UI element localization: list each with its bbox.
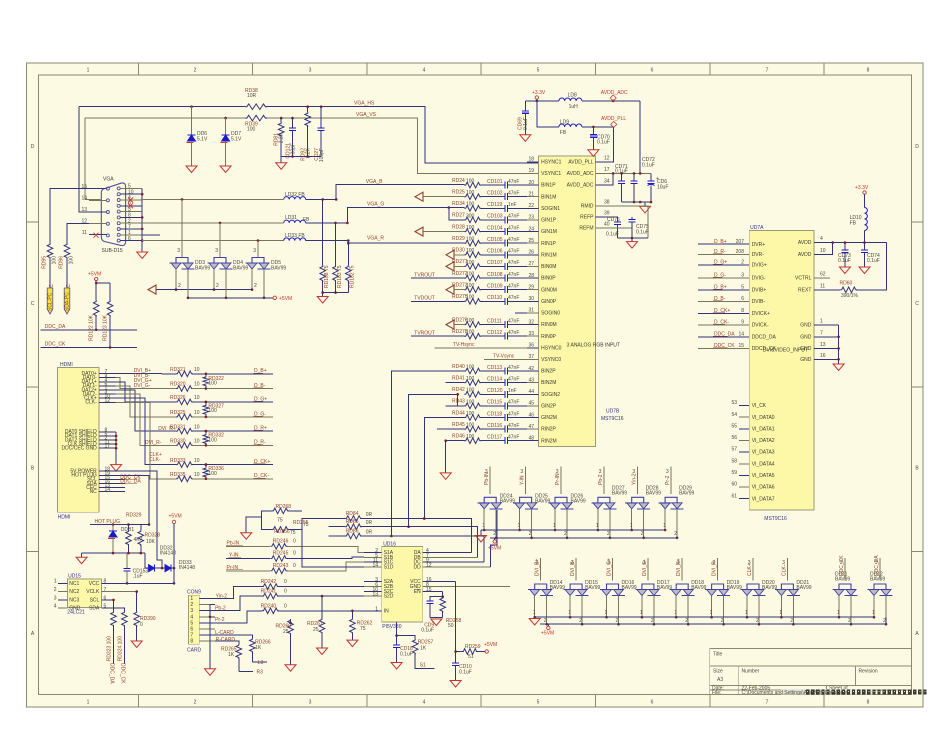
svg-text:0.1uF: 0.1uF — [642, 163, 655, 169]
capacitor CD106 — [487, 249, 527, 259]
svg-text:UD7A: UD7A — [750, 225, 764, 231]
svg-text:NC: NC — [90, 489, 98, 495]
capacitor CD27 — [314, 105, 325, 162]
resistor RD240 — [261, 603, 371, 613]
svg-text:47nF: 47nF — [508, 237, 519, 243]
VGA right pin wires and bus — [120, 184, 143, 242]
resistor RD24 — [452, 178, 500, 188]
ferrite bead LD31 — [284, 215, 310, 223]
svg-text:47nF: 47nF — [508, 284, 519, 290]
net label VGA_G — [367, 202, 384, 208]
net label DDC_CK — [45, 342, 66, 348]
svg-text:2: 2 — [641, 531, 644, 537]
svg-text:IN: IN — [384, 608, 389, 614]
svg-text:42: 42 — [528, 366, 534, 372]
svg-text:TVROUT: TVROUT — [414, 272, 435, 278]
svg-text:NC3: NC3 — [69, 597, 79, 603]
svg-text:6: 6 — [651, 68, 654, 74]
svg-text:100: 100 — [466, 434, 475, 440]
svg-text:Pr-IN: Pr-IN — [227, 565, 239, 571]
svg-text:1: 1 — [640, 610, 643, 616]
svg-text:BAV99: BAV99 — [727, 585, 742, 591]
resistor RD320 — [170, 382, 273, 392]
resistor RD275 — [452, 294, 500, 304]
wire VGA_R — [306, 239, 465, 243]
double diode DD5 — [246, 258, 287, 272]
resistor RD331 — [170, 424, 273, 434]
resistor RD44 — [452, 410, 500, 420]
svg-text:+5VM: +5VM — [484, 642, 497, 648]
svg-text:DDC/CEC GND: DDC/CEC GND — [62, 446, 98, 452]
wire REXT pin11 — [798, 243, 886, 294]
svg-text:100: 100 — [466, 411, 475, 417]
svg-text:13: 13 — [820, 342, 826, 348]
svg-text:GND: GND — [800, 357, 812, 363]
capacitor CD103 — [487, 214, 527, 224]
wire VGA pin2 to LD31 — [142, 222, 284, 224]
svg-text:DDCD_CK: DDCD_CK — [752, 346, 777, 352]
label MST9C16 bottom — [764, 516, 787, 522]
svg-text:DVIB-: DVIB- — [752, 299, 766, 305]
svg-text:BAV99: BAV99 — [762, 585, 777, 591]
ground CD73 — [839, 267, 850, 274]
svg-text:8: 8 — [190, 639, 193, 645]
svg-text:100: 100 — [466, 399, 475, 405]
svg-text:D_R-: D_R- — [714, 249, 726, 255]
svg-text:RD240: RD240 — [261, 603, 277, 609]
svg-text:1: 1 — [820, 319, 823, 325]
wire HDMI pair D_G+ — [116, 382, 177, 402]
svg-text:0.1uF: 0.1uF — [606, 232, 619, 238]
capacitor CD153 — [124, 553, 149, 583]
svg-text:Pb-2: Pb-2 — [598, 474, 604, 485]
svg-text:2: 2 — [194, 68, 197, 74]
capacitor CD116 — [487, 423, 527, 433]
svg-text:1: 1 — [87, 700, 90, 706]
svg-text:1: 1 — [745, 610, 748, 616]
svg-text:File:: File: — [712, 690, 721, 696]
capacitor CD9 — [421, 597, 443, 634]
svg-text:DVIG-: DVIG- — [752, 276, 766, 282]
wire D pin DD riser — [490, 510, 497, 567]
wire SOGIN0 stub — [515, 312, 527, 314]
wire row47 feed — [437, 428, 464, 430]
svg-text:DD: DD — [413, 564, 421, 570]
port SCL-PC — [47, 288, 53, 314]
svg-text:VCLK: VCLK — [86, 589, 100, 595]
svg-text:GIN1M: GIN1M — [541, 229, 557, 235]
svg-text:1: 1 — [553, 523, 556, 529]
net label L-CARD — [215, 630, 234, 636]
double diode DD19 — [705, 580, 742, 596]
svg-text:100: 100 — [466, 237, 475, 243]
net label DDC_CK boxed — [120, 474, 142, 480]
svg-text:32: 32 — [528, 319, 534, 325]
resistor RD46 — [452, 434, 500, 444]
net label DVI_G+ — [134, 378, 152, 384]
diode DD32 — [145, 545, 176, 571]
capacitor CD117 — [487, 435, 527, 445]
svg-text:IN4148: IN4148 — [179, 565, 195, 571]
svg-text:75: 75 — [290, 530, 296, 536]
svg-text:33: 33 — [528, 331, 534, 337]
resistor RD242 — [261, 579, 364, 589]
svg-text:1: 1 — [568, 610, 571, 616]
svg-text:1: 1 — [375, 606, 378, 612]
svg-text:VGA_VS: VGA_VS — [356, 112, 377, 118]
net label TV-Vsync — [484, 353, 527, 359]
ground CD74 — [859, 267, 870, 274]
svg-text:3: 3 — [520, 469, 523, 475]
svg-text:55: 55 — [731, 423, 737, 429]
svg-text:CARD: CARD — [187, 647, 202, 653]
svg-text:58: 58 — [731, 458, 737, 464]
svg-text:27: 27 — [528, 261, 534, 267]
svg-text:VCTRL: VCTRL — [795, 276, 812, 282]
resistor RD390 — [134, 611, 156, 641]
svg-text:10: 10 — [194, 395, 200, 401]
svg-text:BIN0P: BIN0P — [541, 276, 556, 282]
resistor RD325 — [170, 410, 273, 420]
capacitor CD111 — [487, 318, 527, 328]
svg-text:CD104: CD104 — [487, 225, 503, 231]
svg-text:61: 61 — [731, 493, 737, 499]
svg-text:0: 0 — [293, 563, 296, 569]
resistor RD336 — [203, 463, 224, 480]
svg-text:28: 28 — [528, 273, 534, 279]
svg-text:2: 2 — [616, 618, 619, 624]
svg-text:BIN0M: BIN0M — [541, 264, 556, 270]
svg-text:0.1uF: 0.1uF — [867, 258, 880, 264]
wire pin34 to AVDD node — [567, 173, 614, 188]
svg-text:RIN1P: RIN1P — [541, 241, 556, 247]
svg-text:CD120: CD120 — [487, 388, 503, 394]
ferrite bead LD32 — [284, 192, 306, 199]
svg-text:50: 50 — [448, 623, 454, 629]
wire Pb-IN row — [226, 546, 364, 552]
svg-text:RD259: RD259 — [465, 644, 481, 650]
svg-text:2: 2 — [651, 618, 654, 624]
resistor RD322 — [203, 373, 224, 390]
zener diode DD7 — [221, 117, 242, 166]
svg-text:2: 2 — [493, 531, 496, 537]
svg-text:CD105: CD105 — [487, 237, 503, 243]
capacitor CD75 — [629, 217, 650, 238]
net label DVI_B+ — [134, 368, 151, 374]
svg-text:43: 43 — [528, 377, 534, 383]
net label Pb-IN — [226, 541, 243, 547]
svg-text:VI_DATA2: VI_DATA2 — [752, 438, 775, 444]
svg-text:207: 207 — [736, 239, 745, 245]
svg-text:100: 100 — [52, 256, 58, 265]
wire HDMI pair D_R+ — [116, 390, 177, 431]
svg-text:1nF: 1nF — [508, 202, 517, 208]
svg-text:GIN0P: GIN0P — [541, 299, 557, 305]
wire CON9 pin3 Pb-2 — [215, 596, 262, 612]
svg-text:46: 46 — [528, 412, 534, 418]
power +5VM hotplug — [169, 514, 182, 584]
svg-text:BAV99: BAV99 — [550, 585, 565, 591]
wire input stub DVI_B+ row2 — [535, 558, 541, 581]
inductor LD9 — [559, 120, 582, 137]
svg-text:2: 2 — [254, 283, 257, 289]
svg-text:GND: GND — [800, 334, 812, 340]
svg-text:RIN0M: RIN0M — [541, 322, 557, 328]
svg-text:10: 10 — [194, 410, 200, 416]
svg-text:1K: 1K — [228, 652, 235, 658]
svg-text:NC1: NC1 — [69, 581, 79, 587]
ground RD262 — [347, 640, 358, 647]
capacitor CD104 — [487, 225, 527, 235]
svg-text:VCC: VCC — [89, 581, 100, 587]
svg-text:UD15: UD15 — [68, 574, 81, 580]
svg-text:10R: 10R — [247, 93, 257, 99]
svg-text:2.2K: 2.2K — [279, 132, 285, 143]
port arrow row BIN1M — [415, 192, 464, 201]
svg-text:2: 2 — [848, 618, 851, 624]
svg-text:RD323 100: RD323 100 — [107, 636, 113, 662]
svg-text:0: 0 — [284, 579, 287, 585]
svg-text:RD25: RD25 — [452, 190, 465, 196]
svg-text:1K: 1K — [255, 645, 262, 651]
wire LD32 to VGA_B node — [306, 198, 338, 201]
resistor RD81 — [274, 117, 285, 157]
svg-text:14: 14 — [105, 487, 111, 493]
svg-text:BIN1M: BIN1M — [541, 194, 556, 200]
svg-text:MST9C16: MST9C16 — [764, 516, 787, 522]
IC UD7B left pin stubs and numbers — [527, 157, 562, 445]
wire hot plug — [90, 523, 141, 526]
svg-text:1: 1 — [54, 579, 57, 585]
svg-text:390/1%: 390/1% — [841, 293, 859, 299]
svg-text:2: 2 — [721, 618, 724, 624]
svg-text:Pr-2: Pr-2 — [665, 475, 671, 485]
svg-text:100: 100 — [208, 380, 217, 386]
svg-text:REFM: REFM — [579, 226, 593, 232]
resistor RD84 — [329, 511, 472, 553]
svg-text:BIN2P: BIN2P — [541, 369, 556, 375]
svg-text:7: 7 — [104, 587, 107, 593]
svg-text:RD45: RD45 — [452, 422, 465, 428]
svg-text:2: 2 — [194, 700, 197, 706]
resistor RD27 — [452, 213, 500, 223]
UD16 VCC GND EN pins — [410, 577, 510, 595]
svg-text:19: 19 — [528, 168, 534, 174]
double diode DD15 — [564, 580, 601, 596]
svg-text:DDC_CK: DDC_CK — [714, 343, 735, 349]
wire DDC_CK — [41, 346, 137, 349]
svg-text:REFP: REFP — [580, 215, 594, 221]
ground CD70 — [588, 150, 599, 157]
svg-text:CD107: CD107 — [487, 260, 503, 266]
resistor RD329 — [126, 513, 143, 553]
ground CD18 — [391, 663, 402, 670]
svg-text:SDA-PC: SDA-PC — [64, 292, 70, 311]
svg-text:14: 14 — [372, 562, 378, 568]
svg-text:D_CK+: D_CK+ — [714, 308, 730, 314]
power +5VM RD259 — [484, 642, 497, 653]
svg-text:DDC_DA: DDC_DA — [45, 324, 66, 330]
wire REFP pin39 — [580, 211, 617, 222]
resistor RD43 — [452, 399, 500, 409]
svg-text:3: 3 — [177, 248, 180, 254]
svg-text:AVDD_ADC: AVDD_ADC — [601, 90, 628, 96]
svg-text:75: 75 — [277, 518, 283, 524]
svg-text:CLK-: CLK- — [85, 400, 97, 406]
svg-text:Pb-2: Pb-2 — [215, 606, 226, 612]
svg-text:S2D: S2D — [384, 594, 394, 600]
wire riser to DD3 — [177, 198, 183, 257]
svg-text:100: 100 — [466, 272, 475, 278]
svg-text:VSYNC1: VSYNC1 — [541, 171, 561, 177]
double diode DD28 — [625, 486, 661, 509]
svg-text:DVICK-: DVICK- — [752, 323, 769, 329]
svg-text:21: 21 — [528, 192, 534, 198]
svg-text:CD115: CD115 — [487, 400, 502, 406]
svg-text:DVI_B-: DVI_B- — [570, 560, 576, 576]
svg-text:3: 3 — [215, 248, 218, 254]
svg-text:DVIG+: DVIG+ — [752, 262, 767, 268]
svg-text:DDC_DA: DDC_DA — [120, 478, 141, 484]
svg-text:20: 20 — [528, 180, 534, 186]
svg-text:CD111: CD111 — [487, 318, 502, 324]
svg-text:BAV99: BAV99 — [571, 499, 586, 505]
wire HDMI pin19 riser — [125, 475, 150, 526]
net label TVDOUT row30 — [411, 296, 465, 302]
svg-text:DVR+: DVR+ — [752, 242, 766, 248]
resistor RD39 — [245, 115, 267, 132]
svg-text:40: 40 — [604, 222, 610, 228]
wire HDMI pair D_R- — [116, 394, 177, 445]
net label D_B- — [254, 383, 266, 389]
no-connect X on pin 11 — [94, 233, 99, 238]
wire input stub Yin-2 — [632, 467, 638, 494]
svg-text:BAV99: BAV99 — [500, 499, 515, 505]
ground for VGA shell — [137, 241, 148, 259]
svg-text:57: 57 — [731, 447, 737, 453]
inductor LD10 — [850, 208, 868, 243]
svg-text:RD122 10K: RD122 10K — [89, 314, 95, 341]
svg-text:CON9: CON9 — [187, 589, 201, 595]
net label Y-IN — [228, 553, 241, 559]
svg-text:RD245: RD245 — [273, 551, 289, 557]
svg-text:11: 11 — [82, 230, 87, 236]
wire REF rail — [618, 237, 649, 240]
svg-text:Size: Size — [713, 669, 723, 675]
connector VGA SUB-D15 — [101, 177, 125, 255]
svg-text:CD110: CD110 — [487, 295, 502, 301]
ground for RC network — [276, 157, 287, 170]
wire row2 clamp rails — [533, 596, 888, 626]
svg-text:RD183 75: RD183 75 — [337, 265, 343, 288]
connector CON9 — [187, 589, 202, 653]
svg-text:Number: Number — [742, 669, 760, 675]
wire input stub DVI_B- row2 — [570, 558, 576, 581]
capacitor CD69 — [518, 101, 537, 135]
svg-text:REXT: REXT — [798, 287, 811, 293]
svg-text:100: 100 — [466, 376, 475, 382]
svg-text:RD241: RD241 — [261, 589, 277, 595]
svg-text:10: 10 — [194, 382, 200, 388]
svg-text:DVI_G-: DVI_G- — [642, 559, 648, 576]
svg-text:RD335: RD335 — [170, 472, 186, 478]
svg-text:8: 8 — [741, 308, 744, 314]
double diode DD11 — [833, 572, 858, 596]
svg-text:1: 1 — [710, 610, 713, 616]
svg-text:LD33 FB: LD33 FB — [285, 233, 305, 239]
svg-text:2: 2 — [607, 531, 610, 537]
svg-text:Pb-IN: Pb-IN — [484, 472, 490, 485]
svg-text:47nF: 47nF — [508, 249, 519, 255]
svg-text:C: C — [31, 301, 35, 307]
resistor RD276 — [452, 317, 500, 327]
svg-text:10K: 10K — [146, 539, 156, 545]
resistor RD92 — [301, 105, 312, 160]
wire AVDD_PLL to pin12 — [596, 127, 614, 162]
op-amp U D7B body (MST9C16 analog RGB input) — [539, 156, 620, 447]
wire RC common rail — [281, 155, 321, 158]
svg-text:3: 3 — [309, 68, 312, 74]
svg-text:VI_DATA7: VI_DATA7 — [752, 496, 775, 502]
wire AVDD_ADC to pin17 and caps — [567, 101, 651, 177]
svg-text:D: D — [915, 144, 919, 150]
wire VCTRL pin62 — [795, 272, 830, 282]
svg-text:2: 2 — [756, 618, 759, 624]
wire VGA_B — [336, 185, 464, 200]
svg-text:AVDD: AVDD — [798, 240, 812, 246]
double diode DD4 — [208, 258, 249, 272]
svg-text:8: 8 — [867, 700, 870, 706]
UD15 pins — [54, 579, 174, 612]
wire VCC to RD259 — [454, 582, 462, 653]
svg-text:S1D: S1D — [384, 564, 394, 570]
svg-text:Y-IN: Y-IN — [229, 553, 239, 559]
svg-text:SOGIN1: SOGIN1 — [541, 206, 560, 212]
ground CON9 — [205, 669, 216, 676]
wire VGA_G — [347, 206, 464, 223]
wire input stub Y-IN — [520, 467, 526, 494]
svg-text:29: 29 — [528, 285, 534, 291]
net label Pr-IN — [226, 565, 243, 571]
svg-text:3: 3 — [666, 469, 669, 475]
svg-text:CD119: CD119 — [487, 202, 502, 208]
svg-text:4: 4 — [190, 614, 193, 620]
svg-text:RD27: RD27 — [452, 213, 465, 219]
svg-text:S1: S1 — [420, 663, 426, 669]
svg-text:HSYNC0: HSYNC0 — [541, 345, 562, 351]
svg-text:17: 17 — [604, 167, 610, 173]
svg-text:D_B-: D_B- — [254, 383, 266, 389]
resistor RD25 — [452, 190, 500, 200]
ground REF rail — [627, 238, 638, 248]
svg-text:FB: FB — [303, 217, 310, 223]
double diode DD3 — [170, 258, 211, 272]
resistor RD241 — [261, 589, 364, 599]
UD7A VI_CK VI_DATA pins — [731, 400, 774, 502]
net AVDD_PLL — [582, 116, 627, 128]
svg-text:14: 14 — [81, 196, 87, 202]
svg-text:RD86: RD86 — [346, 529, 359, 535]
UD16 S2 pins — [364, 577, 394, 599]
svg-text:6: 6 — [741, 296, 744, 302]
svg-text:4: 4 — [423, 700, 426, 706]
wire HDMI pair D_B- — [116, 378, 177, 389]
svg-text:47nF: 47nF — [508, 179, 519, 185]
svg-text:+5VM: +5VM — [88, 272, 101, 278]
svg-text:BAV99: BAV99 — [870, 577, 885, 583]
svg-text:AVDD_ADC: AVDD_ADC — [567, 171, 594, 177]
svg-text:1K: 1K — [420, 646, 427, 652]
